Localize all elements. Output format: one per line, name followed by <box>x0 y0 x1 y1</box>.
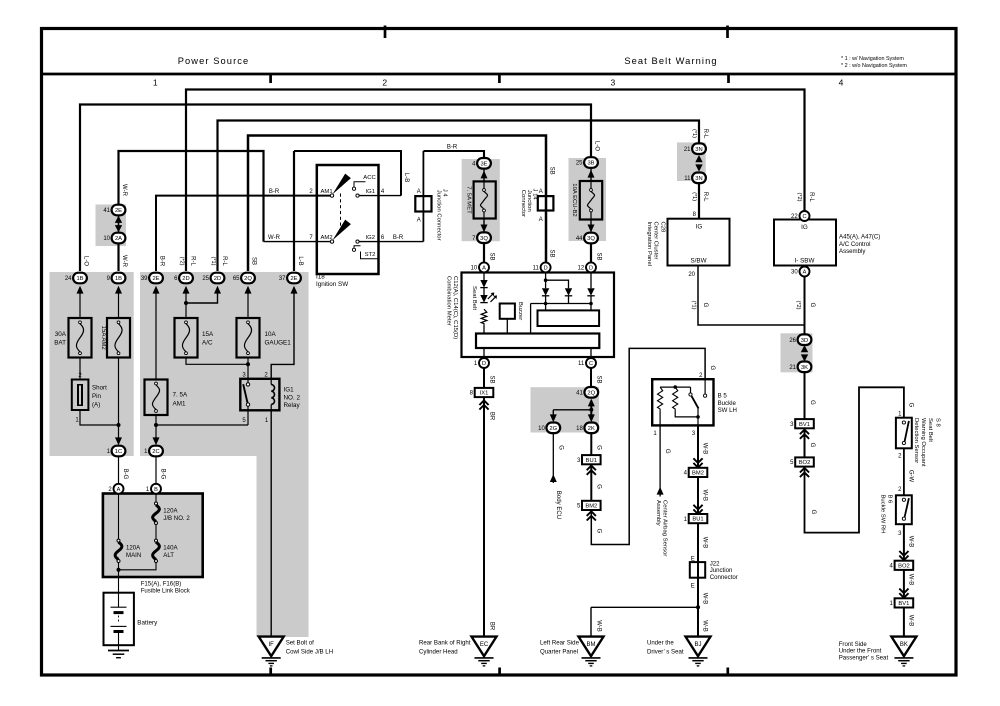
wire ALT to battery junction <box>119 563 157 570</box>
svg-text:10A ECU-B2: 10A ECU-B2 <box>571 183 577 216</box>
wire short pin to junction <box>80 410 119 425</box>
svg-text:BO2: BO2 <box>799 460 811 466</box>
wire S/BW pin20 to 3D <box>698 266 805 326</box>
fuse 10A GAUGE1 <box>237 318 260 358</box>
svg-text:25: 25 <box>202 276 209 282</box>
label S8 Seat Belt Warning Occupant Detection Sensor <box>913 418 941 467</box>
svg-text:IF: IF <box>269 642 275 648</box>
svg-text:(*1): (*1) <box>691 300 697 309</box>
svg-text:15A: 15A <box>202 331 214 338</box>
label 30A BAT <box>54 331 67 347</box>
svg-text:C12(A), C14(C), C15(D): C12(A), C14(C), C15(D) <box>452 276 458 339</box>
wire 2G to body ECU arrow <box>552 433 554 483</box>
wire 2C to fusible link B <box>155 457 157 484</box>
svg-text:E: E <box>691 584 695 590</box>
seat belt warning LED 1 <box>480 280 487 288</box>
wire 2E pin37 to relay coil pin 2 <box>271 288 294 379</box>
svg-text:S 8: S 8 <box>934 418 940 428</box>
svg-text:2E: 2E <box>152 276 159 282</box>
svg-text:J/B NO. 2: J/B NO. 2 <box>163 515 190 522</box>
label J22 Junction Connector <box>710 560 738 581</box>
svg-text:37: 37 <box>279 276 286 282</box>
connector oval 2G pin10 <box>538 423 560 434</box>
svg-text:IG1: IG1 <box>366 189 376 195</box>
svg-text:SB: SB <box>596 375 602 383</box>
svg-text:SW LH: SW LH <box>718 407 737 414</box>
svg-text:140A: 140A <box>163 545 178 552</box>
svg-text:R-L: R-L <box>221 256 227 266</box>
svg-text:BR: BR <box>488 622 494 631</box>
svg-text:Seat Belt: Seat Belt <box>471 286 477 310</box>
wire 2Q pin65 to fuse 10A GAUGE1 <box>247 288 249 318</box>
svg-text:Under the: Under the <box>647 639 674 646</box>
svg-text:Passenger’ s Seat: Passenger’ s Seat <box>839 654 889 661</box>
ignition SW IG1 contact <box>356 189 385 197</box>
svg-text:A: A <box>539 189 543 195</box>
diode 3 in meter <box>587 288 594 296</box>
svg-text:10A: 10A <box>265 331 277 338</box>
svg-text:(*1): (*1) <box>691 129 697 138</box>
shaded block connectors 3D-3K <box>781 333 813 372</box>
shaded block connectors 2Q-2G-2K <box>531 387 600 432</box>
svg-text:W-B: W-B <box>702 443 708 455</box>
labels (*2) R-L above C22 <box>796 192 814 202</box>
arrow into 2E pin39 <box>153 286 160 294</box>
connector circle C pin11 <box>578 358 596 368</box>
connector oval 3Q pin7 <box>472 232 491 243</box>
svg-text:BU1: BU1 <box>586 458 597 464</box>
svg-text:W-B: W-B <box>702 620 708 632</box>
arrow into 3B <box>588 170 595 178</box>
connector box BO2 pin4 <box>890 561 914 570</box>
driver board box in meter <box>476 334 599 349</box>
label J4 Junction Connector <box>435 189 447 241</box>
svg-text:Set Bolt of: Set Bolt of <box>286 639 314 646</box>
label A45 A47 A/C Control Assembly <box>839 234 880 256</box>
wire BU1 to BM2 pin5 <box>590 464 592 501</box>
connector oval 2E pin39 <box>141 273 163 284</box>
junction dot 2D branch <box>184 301 188 305</box>
svg-text:Buzzer: Buzzer <box>517 302 523 320</box>
svg-text:30A: 30A <box>55 331 67 338</box>
svg-text:F15(A), F16(B): F15(A), F16(B) <box>141 581 182 588</box>
svg-text:SB: SB <box>549 167 555 175</box>
svg-text:(*2): (*2) <box>795 300 801 309</box>
resistor in meter <box>481 309 487 325</box>
wire 3Q pin44 to meter D pin12 <box>590 243 592 262</box>
wire B to fusible links <box>155 494 157 539</box>
gauge logic box in meter <box>538 310 600 326</box>
wire branch to middle diode <box>546 280 569 288</box>
svg-text:Left Rear Side: Left Rear Side <box>540 639 580 646</box>
wire 3N pin11 to C28 pin8 <box>698 183 700 219</box>
connector oval 3N pin21 <box>684 143 706 154</box>
svg-text:3N: 3N <box>695 176 702 182</box>
relay pin labels 3 2 5 1 <box>242 372 269 423</box>
svg-text:R-L: R-L <box>189 256 195 266</box>
svg-text:E: E <box>691 556 695 562</box>
svg-text:B-R: B-R <box>269 189 280 195</box>
wire between LEDs <box>483 288 485 295</box>
svg-text:BM2: BM2 <box>692 471 704 477</box>
wire net SB 2Q pin65 via J14 to meter D pin11 <box>248 136 546 272</box>
combination meter box <box>462 273 615 358</box>
svg-text:B-G: B-G <box>122 469 128 480</box>
label J14 Junction Connector <box>520 189 538 218</box>
connector box BV1 pin3 <box>790 419 814 428</box>
wire 2D pin6 to fuse 15A A/C <box>185 288 187 318</box>
svg-text:3Q: 3Q <box>480 236 488 242</box>
wire BV1 pin1 to ground BK <box>903 608 905 637</box>
junction dot <box>117 423 121 427</box>
svg-text:Assembly: Assembly <box>655 500 661 526</box>
svg-text:1B: 1B <box>115 276 122 282</box>
junction dot BJ-BM branch <box>696 605 700 609</box>
svg-text:4: 4 <box>839 78 844 88</box>
connector oval 2C pin1 <box>144 446 163 457</box>
wire BU1 pin1 to ground BJ via J22 <box>697 523 699 636</box>
wire fuse GAUGE1 to relay pin 3 <box>247 358 249 383</box>
label 15A A/C <box>202 331 214 347</box>
wire net W-R 2E pin41 to ignition SW AM2 <box>119 151 264 242</box>
svg-text:7. 5A: 7. 5A <box>173 392 189 399</box>
chevron arrows into BM2 pin4 <box>693 458 702 463</box>
connector oval 3E pin4 <box>472 158 491 169</box>
wire BM2 pin4 to BU1 pin1 <box>697 477 699 515</box>
svg-text:W-B: W-B <box>907 536 913 548</box>
svg-text:Combination Meter: Combination Meter <box>446 276 452 326</box>
fuse 10A ECU-B2 <box>580 181 602 220</box>
connector oval 1B pin9 <box>107 273 126 284</box>
labels R-L (*1) below 3N <box>691 192 708 202</box>
ground BM <box>579 637 604 666</box>
svg-text:2Q: 2Q <box>244 276 252 282</box>
wire net R-L (*1) 2D pin25 to 3N pin21 <box>218 121 700 272</box>
label B5 Buckle SW LH <box>718 393 737 415</box>
svg-text:2E: 2E <box>290 276 297 282</box>
wire 3B to fuse ECU-B2 <box>590 168 592 181</box>
wire MAIN to battery junction <box>118 563 120 593</box>
svg-text:Connector: Connector <box>520 190 526 217</box>
svg-text:(A): (A) <box>92 402 100 409</box>
svg-text:D: D <box>589 266 593 272</box>
svg-text:L-O: L-O <box>83 256 89 266</box>
svg-text:A: A <box>539 217 543 223</box>
connector circle C pin22 <box>791 211 809 221</box>
junction dot B5 lever <box>696 415 700 419</box>
chevron arrows below BV1 <box>800 430 809 435</box>
connector pair arrows 3D-3K <box>801 345 808 352</box>
svg-text:R-L: R-L <box>702 192 708 202</box>
ignition SW AM2 contact and lever <box>309 220 351 244</box>
junction dot D11 branch <box>544 278 548 282</box>
short pin (A) <box>72 380 89 411</box>
center cluster integration panel C28 box <box>668 219 730 266</box>
arrow into 1C <box>115 437 122 445</box>
svg-text:SB: SB <box>251 257 257 265</box>
svg-text:W-B: W-B <box>702 537 708 549</box>
svg-text:11: 11 <box>533 266 540 272</box>
column numbers <box>153 78 844 88</box>
diode 2 in meter <box>565 288 572 296</box>
connector circle A pin10 <box>471 262 489 272</box>
svg-text:C: C <box>589 361 593 367</box>
svg-text:Relay: Relay <box>284 402 301 409</box>
svg-text:Integration Panel: Integration Panel <box>646 222 652 267</box>
wire 3E to fuse MET <box>483 169 485 182</box>
svg-text:12: 12 <box>578 266 585 272</box>
seat belt warning occupant detection sensor S8 box <box>896 418 912 449</box>
wire fuse ECU-B2 to 3Q pin44 <box>590 220 592 233</box>
svg-text:B: B <box>154 487 158 493</box>
wire branch to ground BM <box>591 606 698 608</box>
wire BV1 to BO2 pin5 <box>804 428 806 457</box>
relay IG1 NO.2 box <box>240 379 279 411</box>
svg-text:Power Source: Power Source <box>178 56 250 66</box>
shaded block connector 2E-2A pair <box>96 205 127 247</box>
svg-text:G: G <box>709 365 715 370</box>
wire 2K to BU1 pin3 <box>590 433 592 455</box>
arrow into 2K pin18 <box>588 414 595 422</box>
svg-text:G: G <box>810 510 816 515</box>
junction connector J4 <box>415 189 431 223</box>
svg-text:Seat Belt Warning: Seat Belt Warning <box>624 56 717 66</box>
label C28 Center Cluster Integration Panel <box>646 222 666 267</box>
svg-text:21: 21 <box>684 147 691 153</box>
svg-text:AM1: AM1 <box>173 400 186 407</box>
svg-text:B-R: B-R <box>447 145 458 151</box>
ground EC <box>472 637 497 666</box>
label B6 Buckle SW RH <box>880 495 893 534</box>
svg-text:2D: 2D <box>182 276 189 282</box>
ground IF <box>259 637 284 666</box>
wire 1B pin9 to fuse 15A AM2 <box>118 288 120 318</box>
wire A to fuse 120A MAIN <box>118 494 120 541</box>
label Center Airbag Sensor Assembly <box>655 500 668 556</box>
svg-text:(*2): (*2) <box>796 192 802 201</box>
svg-text:IG2: IG2 <box>366 235 376 241</box>
connector oval 3Q pin44 <box>576 233 598 244</box>
wire driver board to C11 <box>590 348 592 358</box>
svg-text:L-O: L-O <box>594 141 600 151</box>
svg-text:L-B: L-B <box>403 173 409 182</box>
label Short Pin (A) <box>92 385 107 409</box>
svg-text:2: 2 <box>382 78 387 88</box>
junction connector J14 <box>538 189 554 223</box>
ignition SW mechanical link dashed <box>340 194 342 230</box>
svg-text:22: 22 <box>791 214 798 220</box>
svg-text:S/BW: S/BW <box>690 258 706 265</box>
connector box IX1 pin8 <box>470 388 494 397</box>
svg-text:Fusible Link Block: Fusible Link Block <box>141 588 191 595</box>
diode output bus <box>531 296 591 334</box>
svg-text:11: 11 <box>684 176 691 182</box>
svg-text:11: 11 <box>578 361 585 367</box>
connector oval 2D pin6 <box>174 273 193 284</box>
ground BK <box>891 637 916 666</box>
wire net L-B ignition SW IG1 to 2E pin37 <box>358 195 402 197</box>
arrow into 2Q pin65 <box>245 286 252 294</box>
svg-text:IG: IG <box>696 224 703 231</box>
ignition SW IG2 contact <box>356 235 385 243</box>
ignition SW ACC contact <box>352 175 376 190</box>
svg-text:3: 3 <box>611 78 616 88</box>
svg-text:Cylinder Head: Cylinder Head <box>419 648 458 655</box>
chevron arrows below BU1 <box>587 466 596 471</box>
svg-text:10: 10 <box>471 266 478 272</box>
shaded strip relay to ground IF <box>257 456 309 637</box>
wire 2E pin41 to 2A pin10 connector pair <box>118 216 120 233</box>
svg-text:Seat Belt: Seat Belt <box>927 418 933 442</box>
shaded block fuse 7.5A MET <box>462 159 500 241</box>
connector circle D pin12 <box>578 262 596 272</box>
wire B5 pin1 to center airbag sensor <box>659 425 661 496</box>
svg-text:BM2: BM2 <box>585 504 597 510</box>
navigation system notes <box>841 56 907 69</box>
svg-text:A: A <box>117 487 121 493</box>
svg-text:21: 21 <box>789 365 796 371</box>
svg-text:W-B: W-B <box>907 574 913 586</box>
ignition switch I18 box <box>317 165 379 274</box>
wire 1C to fusible link A <box>118 457 120 484</box>
svg-text:65: 65 <box>233 276 240 282</box>
svg-text:Buckle: Buckle <box>718 400 737 407</box>
arrow into 1B pin9 <box>115 286 122 294</box>
svg-text:30: 30 <box>791 270 798 276</box>
svg-text:BV1: BV1 <box>799 422 810 428</box>
svg-text:AM2: AM2 <box>321 235 333 241</box>
ignition SW ST2 contact <box>352 246 378 259</box>
svg-text:3B: 3B <box>587 161 594 167</box>
connector circle D pin11 <box>533 262 551 272</box>
arrow from center airbag sensor <box>657 487 664 495</box>
svg-text:(*1): (*1) <box>210 256 216 265</box>
wire junction to relay pin 5 <box>156 424 248 426</box>
connector oval 1B pin24 <box>65 273 87 284</box>
svg-text:10: 10 <box>538 426 545 432</box>
svg-text:Short: Short <box>92 385 107 392</box>
header tick marks <box>271 26 729 677</box>
connector box BM2 pin4 <box>684 468 708 477</box>
wire 2A pin10 down to 1B pin9 <box>117 244 119 272</box>
svg-text:Rear Bank of Right: Rear Bank of Right <box>419 639 471 646</box>
wire B6 pin3 to BO2 pin4 <box>903 524 905 561</box>
label Rear Bank of Right Cylinder Head <box>419 639 471 655</box>
svg-text:G: G <box>702 303 708 308</box>
junction dots diode bus <box>544 302 593 306</box>
connector oval 2K pin18 <box>576 423 598 434</box>
wire resistor to driver board <box>483 326 485 334</box>
svg-text:120A: 120A <box>163 508 178 515</box>
shaded block column 2 fuses <box>140 272 309 456</box>
svg-text:20: 20 <box>688 272 695 278</box>
connector oval 2Q pin65 <box>233 273 255 284</box>
label Left Rear Side Quarter Panel <box>540 639 580 655</box>
wire BM2 pin5 to buckle SW B5 pin2 <box>591 348 705 544</box>
labels (*1) R-L <box>210 256 227 266</box>
svg-text:BJ: BJ <box>694 642 701 648</box>
connector pair arrows 2E-2A <box>115 216 122 223</box>
junction dot AM1-relay <box>154 423 158 427</box>
svg-text:B 6: B 6 <box>886 495 892 505</box>
svg-text:BAT: BAT <box>54 340 66 347</box>
fuse 7.5A MET <box>474 181 496 218</box>
svg-text:BR: BR <box>488 412 494 421</box>
connector circle A pin2 <box>108 484 123 494</box>
label 120A MAIN <box>126 545 141 560</box>
svg-text:* 2 : w/o Navigation System: * 2 : w/o Navigation System <box>841 63 907 69</box>
B5 interior wiring <box>660 379 707 425</box>
diode 1 in meter <box>542 288 549 296</box>
svg-text:R-L: R-L <box>808 192 814 202</box>
wire S8 pin2 to buckle SW B6 <box>903 448 905 495</box>
svg-text:120A: 120A <box>126 545 141 552</box>
svg-text:I- SBW: I- SBW <box>795 258 815 265</box>
svg-text:ACC: ACC <box>363 175 376 181</box>
connector circle D pin1 <box>474 358 489 368</box>
connector circle A pin30 <box>791 267 809 277</box>
svg-text:26: 26 <box>789 338 796 344</box>
labels (*1) R-L above 3N <box>691 129 708 139</box>
svg-text:Battery: Battery <box>137 619 158 626</box>
seat belt warning LED 2 <box>480 295 487 303</box>
connector oval 2A pin10 <box>103 233 125 244</box>
shaded block fuse 10A ECU-B2 <box>569 158 607 241</box>
connector oval 2D pin25 <box>202 273 224 284</box>
arrow into 2G pin10 <box>550 414 557 422</box>
fusible link block box <box>103 494 203 578</box>
chevron arrows below IX1 <box>479 400 488 405</box>
connector oval 3K pin21 <box>789 362 811 373</box>
label 10A GAUGE1 <box>265 331 292 347</box>
svg-text:2K: 2K <box>588 426 595 432</box>
arrow into 2D pin25 <box>214 286 221 294</box>
wire relay pin 1 to ground IF <box>270 410 272 636</box>
svg-text:2C: 2C <box>152 449 159 455</box>
fuse 7.5A AM1 <box>145 380 168 416</box>
connector oval 3D pin26 <box>789 334 811 345</box>
svg-text:3D: 3D <box>801 338 808 344</box>
svg-text:A45(A), A47(C): A45(A), A47(C) <box>839 234 880 241</box>
svg-text:NO. 2: NO. 2 <box>284 394 301 401</box>
svg-text:Driver’ s Seat: Driver’ s Seat <box>647 648 684 655</box>
svg-text:2G: 2G <box>549 426 557 432</box>
svg-text:A: A <box>803 270 807 276</box>
svg-text:G: G <box>596 445 602 450</box>
fusible link 120A J/B NO.2 <box>155 502 158 505</box>
connector oval 2Q pin41 <box>576 387 598 398</box>
connector circle B pin1 <box>146 484 161 494</box>
chevron arrows into BU1 pin1 <box>693 505 702 510</box>
svg-text:BV1: BV1 <box>898 601 909 607</box>
resistor B5 left <box>658 387 663 411</box>
svg-text:G: G <box>907 403 913 408</box>
labels (*1) G on S/BW wire <box>691 300 708 309</box>
svg-text:Center Cluster: Center Cluster <box>653 222 659 260</box>
svg-text:3E: 3E <box>480 161 487 167</box>
arrow into 2E pin37 <box>291 286 298 294</box>
svg-text:Buckle SW RH: Buckle SW RH <box>880 495 886 534</box>
wire driver board to D1 <box>483 348 485 358</box>
svg-text:W-B: W-B <box>907 615 913 627</box>
svg-text:C28: C28 <box>659 222 665 234</box>
svg-text:IX1: IX1 <box>480 391 489 397</box>
arrow into 3Q pin44 <box>588 225 595 233</box>
connector box BV1 pin1 <box>890 598 914 607</box>
svg-text:25: 25 <box>576 161 583 167</box>
svg-text:G: G <box>558 445 564 450</box>
wire net B-R 2E pin39 to ignition SW AM1 <box>156 196 331 271</box>
